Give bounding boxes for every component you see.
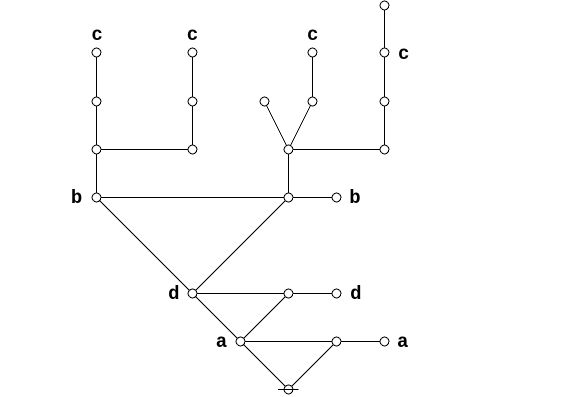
node N3 xyxy=(308,48,317,57)
wire N16-N18 xyxy=(193,198,289,294)
node N5 xyxy=(380,48,389,57)
wire N21-N22 xyxy=(241,341,337,343)
wire N18-N19 xyxy=(193,293,289,295)
wire N15-N18 xyxy=(97,198,193,294)
node N23 xyxy=(380,337,389,346)
node N8 xyxy=(260,97,269,106)
node N21 xyxy=(236,337,245,346)
svg-text:d: d xyxy=(350,283,361,305)
wire N1-N6 xyxy=(96,53,98,102)
node N6 xyxy=(92,97,101,106)
svg-text:c: c xyxy=(91,24,102,46)
node N7 xyxy=(188,97,197,106)
wire N10-N14 xyxy=(384,102,386,150)
root node N24 xyxy=(284,385,293,394)
wire N18-N21 xyxy=(193,294,241,342)
wire N16-N17 xyxy=(289,197,337,199)
node N12 xyxy=(188,145,197,154)
root strike line xyxy=(278,389,299,391)
svg-text:a: a xyxy=(216,331,227,353)
node N19 xyxy=(284,289,293,298)
svg-text:b: b xyxy=(349,187,360,209)
node N14 xyxy=(380,145,389,154)
node N4 xyxy=(380,1,389,10)
wire N5-N10 xyxy=(384,53,386,102)
svg-text:c: c xyxy=(307,24,318,46)
wire N11-N15 xyxy=(96,150,98,198)
wire N19-N20 xyxy=(289,293,337,295)
svg-text:c: c xyxy=(398,43,409,65)
node N17 xyxy=(332,193,341,202)
wire N11-N12 xyxy=(97,149,193,151)
wire N22-N24 xyxy=(289,342,337,390)
node N20 xyxy=(332,289,341,298)
svg-text:b: b xyxy=(71,187,82,209)
node N22 xyxy=(332,337,341,346)
wire N7-N12 xyxy=(192,102,194,150)
wire N3-N9 xyxy=(312,53,314,102)
node N1 xyxy=(92,48,101,57)
wire N6-N11 xyxy=(96,102,98,150)
svg-text:c: c xyxy=(187,24,198,46)
node N10 xyxy=(380,97,389,106)
svg-text:a: a xyxy=(397,331,408,353)
node N11 xyxy=(92,145,101,154)
wire N15-N16 xyxy=(97,197,289,199)
wire N8-N13 xyxy=(265,102,289,150)
wire N19-N21 xyxy=(241,294,289,342)
node N15 xyxy=(92,193,101,202)
wire N13-N14 xyxy=(289,149,385,151)
node N9 xyxy=(308,97,317,106)
node N13 xyxy=(284,145,293,154)
wire N13-N16 xyxy=(288,150,290,198)
wire N2-N7 xyxy=(192,53,194,102)
wire N21-N24 xyxy=(241,342,289,390)
svg-text:d: d xyxy=(168,283,179,305)
wire N22-N23 xyxy=(337,341,385,343)
node N16 xyxy=(284,193,293,202)
wire N4-N5 xyxy=(384,6,386,53)
node N18 xyxy=(188,289,197,298)
node N2 xyxy=(188,48,197,57)
wire N9-N13 xyxy=(289,102,313,150)
